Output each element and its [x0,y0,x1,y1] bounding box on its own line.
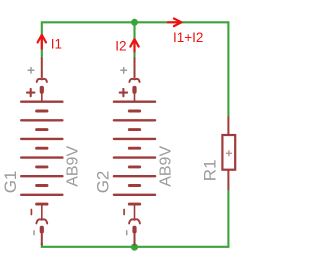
G2 top pin [134,58,136,77]
G2 bottom pin [134,233,136,245]
G1 long plate 6 [21,194,62,196]
R1 top pin [227,116,229,135]
G1 short plate 3 [37,147,47,150]
G1 short plate 2 [37,128,47,131]
G1 bottom clip arc [36,219,47,223]
G2 gray minus mark [126,231,128,235]
G1 bottom stem [41,204,43,219]
G2 short plate 4 [129,165,139,168]
G2 short plate 5 [129,184,139,187]
G2 long plate 2 [114,119,155,121]
G1 top stud [40,86,44,94]
G1 top stem [41,94,43,102]
wire G2 bottom stub [133,243,135,247]
svg-text:R1: R1 [200,159,219,181]
G2 gray plus mark [121,68,127,74]
G1 long plate 5 [21,175,62,177]
R1 plus mark [226,150,232,156]
G1 bottom stud [40,226,44,234]
G2 top clip arc [129,79,139,82]
svg-text:I1+I2: I1+I2 [173,30,203,45]
G1 top clip arc [37,79,47,82]
current arrow I1+I2 [168,19,182,27]
wire bottom net: R1 down, across, up to G1 [42,190,229,247]
G2 top stud [132,86,136,94]
G1 gray minus mark [33,231,35,235]
G2 long plate 6 [114,194,155,196]
G2 long plate 4 [114,156,155,158]
G1 long plate 3 [21,138,62,140]
svg-text:AB9V: AB9V [157,146,174,187]
R1 bottom pin [227,170,229,190]
G2 red minus mark [123,210,125,215]
resistor R1 [222,116,235,190]
G1 red plus mark [27,89,34,96]
G1 short plate 1 [37,110,47,113]
svg-text:I1: I1 [51,37,62,52]
battery G2 [114,58,155,245]
G2 top stem [134,94,136,102]
wire G2 top vertical [133,22,135,58]
battery G1 [21,58,62,245]
G2 short plate 3 [129,147,139,150]
G1 red minus mark [30,210,32,215]
G2 short plate 1 [129,110,139,113]
G1 short plate 4 [37,165,47,168]
G2 red plus mark [120,89,127,96]
G2 bottom clip arc [129,219,140,223]
G1 long plate 1 [21,100,62,102]
G1 top pin [41,58,43,77]
G1 long plate 2 [21,119,62,121]
junction top node [131,19,138,26]
current arrow I1 [38,35,46,49]
G1 short plate 6 [37,203,47,206]
G1 short plate 5 [37,184,47,187]
svg-text:G2: G2 [94,171,113,194]
R1 body box [222,135,235,170]
G1 long plate 4 [21,156,62,158]
wire top net: G1 up, across, down right rail to R1 [42,22,229,116]
G1 gray plus mark [28,68,34,74]
G2 bottom stem [134,204,136,219]
current arrow I2 [130,39,138,51]
svg-text:I2: I2 [115,38,126,53]
G2 short plate 2 [129,128,139,131]
G1 bottom pin [41,233,43,245]
G2 long plate 5 [114,175,155,177]
G2 long plate 1 [114,100,155,102]
svg-text:G1: G1 [1,171,20,194]
svg-text:AB9V: AB9V [65,146,82,187]
G2 long plate 3 [114,138,155,140]
G2 short plate 6 [129,203,139,206]
junction bottom node [131,244,138,251]
G2 bottom stud [132,226,136,234]
